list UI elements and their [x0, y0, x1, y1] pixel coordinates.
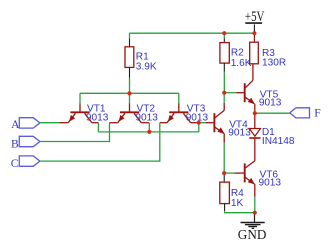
- wire: R4 bottom to ground node: [225, 211, 255, 213]
- svg-text:3.9K: 3.9K: [136, 61, 157, 72]
- wire: C to VT3 emitter: [40, 123, 160, 161]
- wire: R2 node to VT5 base: [224, 92, 236, 94]
- wire: VT6 emitter to ground node: [254, 197, 256, 213]
- wire: to VT4 base: [199, 122, 206, 124]
- transistor VT6: [235, 161, 282, 197]
- output port F: [290, 107, 322, 120]
- resistor R1: [125, 33, 157, 93]
- transistor VT4: [206, 103, 252, 143]
- +5V power symbol: [245, 7, 265, 33]
- node: +5V / R3 junction: [252, 31, 256, 35]
- transistor VT3: [160, 93, 209, 123]
- wire: VT4 emitter down to R4 node: [223, 143, 225, 173]
- wire: top +5V rail: [130, 32, 255, 34]
- transistor VT1: [60, 93, 109, 123]
- diode D1: [249, 113, 295, 161]
- wire: base rail of VT1-VT3: [80, 92, 179, 94]
- node: VT4 emitter / R4 / VT6 base junction: [222, 171, 226, 175]
- node: output F junction: [253, 111, 257, 115]
- input port A: [11, 118, 40, 131]
- resistor R4: [220, 173, 244, 211]
- node: VT3 collector / VT4 base junction: [197, 121, 201, 125]
- svg-text:1.6K: 1.6K: [231, 58, 252, 69]
- wire: B to VT2 emitter: [40, 123, 110, 142]
- wire: to output port F: [255, 112, 290, 114]
- wire: node to VT6 base: [224, 172, 234, 174]
- svg-text:9013: 9013: [135, 113, 158, 124]
- node: bus junction under VT2: [147, 130, 151, 134]
- svg-text:F: F: [314, 107, 321, 120]
- ground: [238, 213, 267, 243]
- wire: VT4 collector up to R2 node: [223, 93, 225, 103]
- svg-text:9013: 9013: [259, 97, 282, 108]
- input port C: [11, 156, 40, 170]
- svg-text:+5V: +5V: [245, 7, 265, 24]
- svg-text:130R: 130R: [262, 58, 286, 69]
- svg-text:C: C: [11, 157, 19, 170]
- transistor VT5: [236, 64, 282, 113]
- svg-text:9013: 9013: [86, 113, 109, 124]
- wire: VT1 collector drop to bus: [97, 123, 99, 132]
- node: R1 bottom / VT2 base junction: [127, 91, 131, 95]
- svg-text:IN4148: IN4148: [262, 136, 295, 147]
- svg-text:GND: GND: [238, 227, 267, 242]
- wire: collector bus: [98, 131, 198, 133]
- svg-text:1K: 1K: [231, 198, 244, 209]
- wire: bus riser to VT3 collector: [198, 123, 200, 132]
- transistor VT2: [110, 93, 159, 123]
- svg-text:9013: 9013: [228, 128, 251, 139]
- wire: VT2 collector drop: [148, 123, 150, 132]
- resistor R3: [250, 33, 286, 68]
- wire: A to VT1 emitter: [40, 122, 60, 124]
- svg-text:B: B: [11, 137, 19, 150]
- node: R2 bottom / VT5 base junction: [222, 91, 226, 95]
- resistor R2: [220, 33, 252, 92]
- svg-text:R2: R2: [231, 48, 244, 59]
- node: ground junction: [253, 211, 257, 215]
- input port B: [11, 136, 40, 150]
- node: R2 top junction: [222, 31, 226, 35]
- svg-text:9013: 9013: [259, 178, 282, 189]
